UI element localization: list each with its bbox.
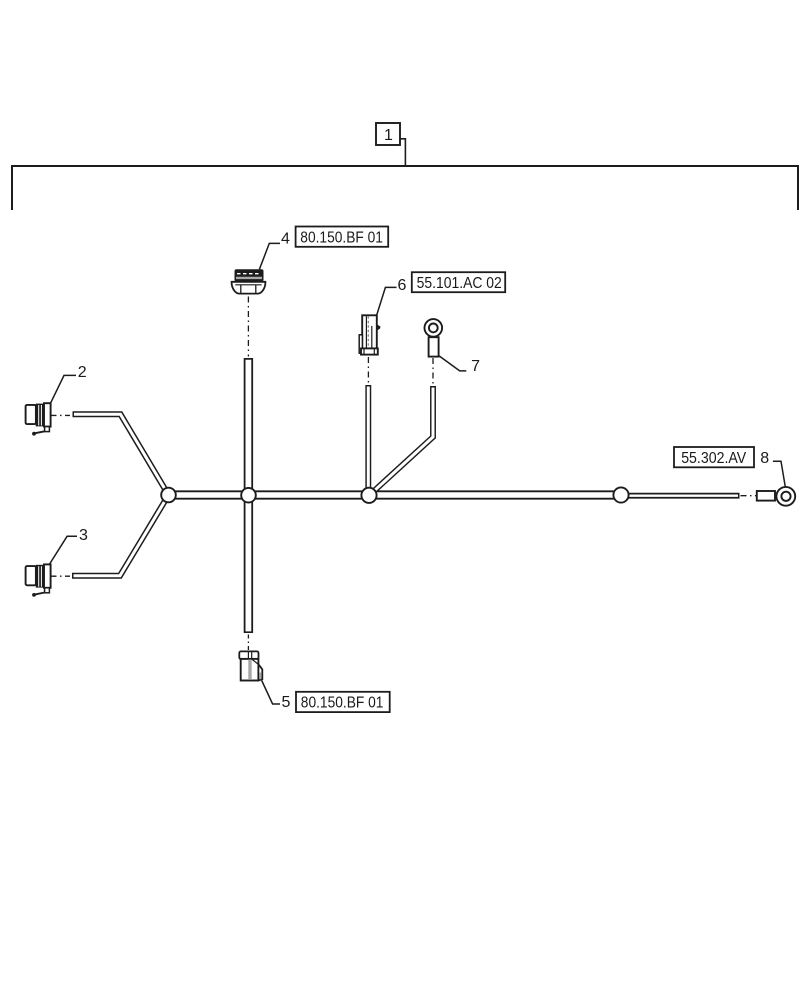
- wire: main harness J4 to right end: [620, 493, 740, 499]
- junction J3: [361, 488, 376, 503]
- leader to item 8: [773, 461, 785, 486]
- ring terminal 8 ring: [776, 487, 795, 506]
- wire: main harness J1 to J4: [165, 490, 622, 499]
- ring terminal 8 stem: [757, 491, 775, 501]
- item 8 section box 55.302.AV: [674, 447, 754, 467]
- leader to item 5: [262, 681, 280, 705]
- connector 2 body: [26, 403, 51, 435]
- leader to item 3: [49, 536, 77, 564]
- svg-text:55.302.AV: 55.302.AV: [681, 450, 746, 467]
- callout leader to item 1: [400, 139, 405, 166]
- connector 3 body: [26, 564, 51, 596]
- connector 5 body: [241, 659, 259, 681]
- wire: branch J3 to ring terminal 7: [369, 386, 433, 496]
- centerline ring 7 to wire: [432, 358, 434, 385]
- svg-text:8: 8: [760, 450, 769, 467]
- svg-text:7: 7: [471, 358, 480, 375]
- item 6 section box 55.101.AC 02: [412, 272, 505, 292]
- svg-text:5: 5: [282, 694, 291, 711]
- centerline ring 8 to wire end: [741, 495, 757, 497]
- connector 6 body: [362, 315, 377, 348]
- svg-text:2: 2: [78, 364, 87, 381]
- junction J4: [613, 487, 628, 502]
- ring terminal 7 stem: [429, 337, 439, 356]
- svg-text:55.101.AC 02: 55.101.AC 02: [417, 275, 502, 292]
- connector 6 side tab: [377, 324, 381, 330]
- connector 5 side plate: [258, 664, 262, 680]
- leader to item 2: [51, 375, 76, 403]
- svg-text:80.150.BF 01: 80.150.BF 01: [300, 230, 383, 247]
- bracket harness extent line: [12, 166, 798, 210]
- wire white interiors: [74, 360, 739, 632]
- ring terminal 7 ring: [425, 319, 443, 337]
- svg-text:3: 3: [79, 527, 88, 544]
- wire: branch to connector 3: [72, 495, 169, 576]
- connector 6 left plate: [359, 335, 362, 353]
- item 5 section box 80.150.BF 01: [296, 692, 390, 712]
- junction J1: [161, 488, 176, 503]
- connector 4 cap ribbed block: [235, 269, 264, 281]
- leader to item 7: [439, 356, 466, 371]
- item 1 callout box: [376, 123, 400, 145]
- svg-text:6: 6: [398, 277, 407, 294]
- wire: branch to connector 2: [73, 414, 169, 495]
- svg-text:80.150.BF 01: 80.150.BF 01: [301, 694, 384, 711]
- svg-text:4: 4: [281, 230, 290, 247]
- centerline connector 6 to wire: [367, 357, 369, 384]
- connector 4 flange: [232, 282, 266, 294]
- centerline above connector 5: [247, 635, 249, 652]
- item 4 section box 80.150.BF 01: [296, 227, 389, 247]
- wire: vertical branch through J2 (to items 4 and 5): [244, 358, 253, 633]
- svg-text:1: 1: [384, 127, 393, 144]
- centerline connector 2 to wire: [52, 414, 72, 416]
- centerline connector 3 to wire: [52, 575, 72, 577]
- junction J2: [241, 488, 256, 503]
- wire: branch J3 to connector 6: [365, 385, 371, 495]
- leader to item 4: [259, 243, 280, 269]
- connector 5 flange: [239, 651, 258, 659]
- leader to item 6: [377, 287, 397, 315]
- connector 6 base: [361, 348, 378, 354]
- centerline connector 4 to wire: [247, 297, 249, 357]
